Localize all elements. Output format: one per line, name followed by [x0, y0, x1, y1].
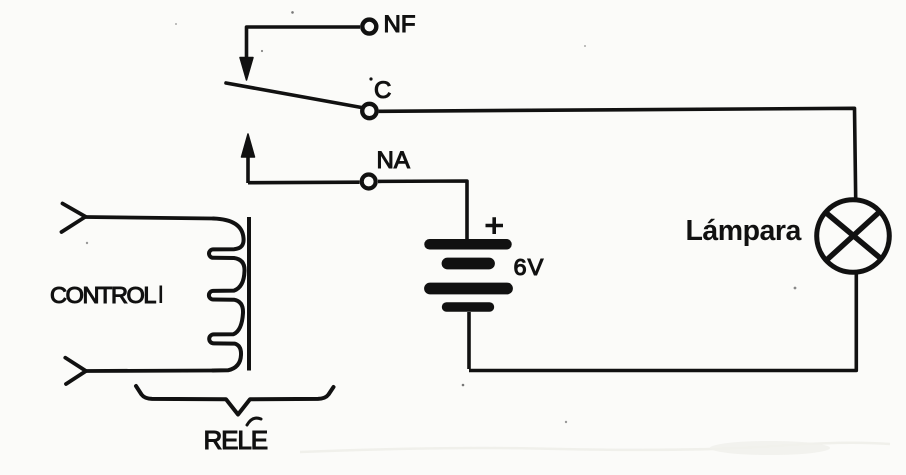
svg-text:NA: NA — [377, 147, 410, 174]
svg-text:RELE: RELE — [204, 425, 268, 455]
svg-text:Lámpara: Lámpara — [686, 215, 803, 247]
svg-text:C: C — [374, 77, 391, 104]
svg-text:6V: 6V — [514, 254, 545, 280]
svg-text:CONTROL: CONTROL — [50, 282, 156, 308]
svg-text:NF: NF — [384, 11, 416, 38]
